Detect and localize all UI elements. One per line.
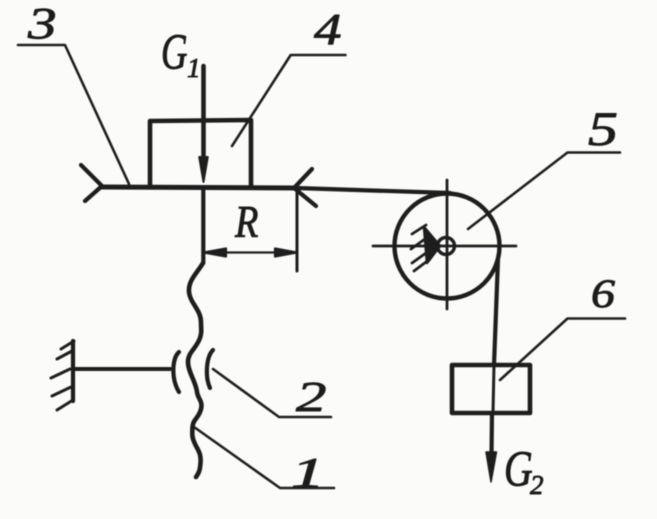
force G1 arrow: [201, 66, 206, 158]
rope from pulley down to weight: [494, 259, 498, 365]
rod end jaw: [173, 352, 179, 392]
R dimension line with arrows: [204, 249, 297, 257]
label 4 with leader: [232, 5, 346, 146]
svg-text:5: 5: [588, 103, 618, 156]
pulley horizontal centerline: [373, 245, 516, 248]
fork piece 2: [207, 350, 213, 388]
block 4: [150, 120, 251, 186]
rope inside weight: [493, 365, 494, 413]
label G2: [504, 440, 544, 500]
pivot hatching: [411, 225, 430, 271]
beam left end arrowhead: [81, 165, 102, 201]
svg-text:R: R: [234, 198, 258, 248]
force G2 arrow: [489, 413, 494, 455]
rope end arrowhead at beam right end: [294, 169, 316, 206]
svg-text:G: G: [504, 440, 533, 497]
svg-text:1: 1: [187, 53, 201, 83]
wall support (hatched): [71, 341, 75, 401]
R dimension extension line: [296, 189, 299, 271]
weight block 6: [452, 365, 530, 413]
svg-text:3: 3: [27, 0, 57, 48]
svg-text:4: 4: [314, 5, 342, 54]
beam (horizontal bar 3): [101, 187, 297, 188]
pivot triangle: [424, 227, 440, 263]
label 1 with leader: [194, 427, 334, 497]
svg-text:2: 2: [296, 374, 326, 421]
rod from wall: [73, 367, 170, 371]
rope 1 (wavy cord): [188, 263, 203, 477]
svg-text:G: G: [161, 23, 188, 80]
label 5 with leader: [468, 103, 620, 229]
svg-text:6: 6: [591, 272, 615, 316]
svg-text:2: 2: [530, 470, 544, 500]
rope from beam to pulley: [296, 188, 450, 193]
label G1: [161, 23, 201, 83]
pulley vertical centerline: [446, 180, 449, 309]
pulley 5 circle: [395, 194, 500, 299]
svg-text:1: 1: [291, 450, 325, 496]
label 2 with leader: [213, 369, 331, 421]
label 6 with leader: [500, 272, 625, 380]
label 3 with leader: [18, 0, 129, 184]
pulley axle small circle: [438, 238, 455, 255]
radius line below beam: [201, 188, 205, 263]
